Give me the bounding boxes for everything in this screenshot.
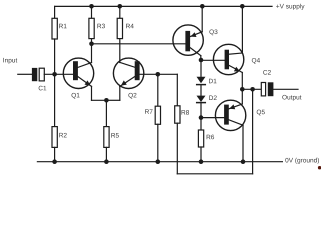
resistor R8 [175,106,180,123]
label R6 [207,135,214,140]
label Q4 [252,58,260,64]
wire R2 bottom [54,147,56,161]
wire R8 top [176,74,178,106]
wire output node horizontal [242,88,261,90]
transistor Q2 [113,58,143,88]
wire feedback riser to output node [252,89,254,174]
node R3 Q1 collector Q3 base [89,42,94,47]
wire R1 bottom to R2 [54,39,56,127]
resistor R3 [89,18,94,38]
label C1 [39,86,47,91]
node C1 R1 Q1 base [52,72,57,77]
node Q2 base R7 R8 [156,72,161,77]
wire emitter junction to R5 [105,100,107,126]
wire Q4 emitter to output node [241,73,243,90]
wire R4 top [119,6,121,18]
wire Q1 emitter down [91,86,93,100]
label Q3 [209,29,217,35]
label D1 [209,79,216,83]
node ground R7 [156,159,161,164]
label C2 [263,70,271,75]
artifact red dot [318,166,321,169]
node D2 Q5 base R6 [199,115,204,120]
wire Q3 collector to node [200,56,202,60]
label R7 [145,109,152,113]
wire R3 top [91,6,93,18]
wire node to R6 [200,118,202,130]
wire 0V bottom rail [37,161,282,163]
wire R5 bottom [105,147,107,161]
label R8 [182,110,189,115]
node top rail Q3 [200,4,205,9]
wire D2 to Q5 base node [200,103,202,118]
transistor Q1 [63,58,93,88]
wire R3 bottom [91,39,93,44]
resistor R6 [198,130,203,147]
diode D2 [197,96,206,103]
label R3 [97,24,104,29]
wire node to Q4 base [201,59,225,61]
wire Q1 collector to node [91,44,93,63]
diode D1 [197,77,206,85]
transistor Q5 [215,100,245,130]
wire feedback bottom horizontal [177,173,252,175]
capacitor C2 [261,82,273,96]
label Q2 [128,93,136,99]
node Q3 collector D1 Q4 base [199,58,204,63]
wire node to Q5 base [201,117,224,119]
wire R7 bottom [157,124,159,161]
label Q5 [257,110,265,116]
node top rail R3 [89,4,94,9]
node output feedback [250,87,255,92]
node top rail R4 [118,4,123,9]
resistor R5 [104,127,109,148]
wire R3 node to Q3 base [92,43,186,45]
wire output stub [273,88,298,90]
label R2 [59,133,66,138]
wire Q2 emitter to junction [106,99,119,101]
resistor R4 [117,18,122,38]
wire Q2 base to R7 node [139,73,158,75]
label 0V (ground) [285,158,319,164]
wire node to D1 [200,60,202,77]
wire Q4 collector to +V [241,6,243,53]
label Input [3,58,17,64]
wire Q5 collector to ground [242,125,244,161]
label D2 [209,95,216,100]
label R4 [126,24,134,28]
wire input stub [18,73,32,75]
wire R6 bottom [200,147,202,162]
wire R8 bottom feedback underpass [176,123,178,174]
node ground R2 [52,159,57,164]
node output Q4 Q5 [240,87,245,92]
resistor R1 [52,18,57,39]
resistor R7 [155,106,160,124]
node ground R6 [199,159,204,164]
wire Q5 emitter to output node [241,89,243,104]
capacitor C1 [32,68,44,81]
wire R7 top [157,74,159,106]
transistor Q4 [213,44,243,74]
wire C1 to Q1 base [44,73,73,75]
wire Q1 emitter to junction [92,99,107,101]
node ground Q5 collector [241,159,246,164]
node Q1 Q2 emitters R5 [104,98,109,103]
label +V supply [276,4,304,10]
label Output [282,95,301,101]
node top rail Q4 [240,4,245,9]
wire +V top rail [55,5,272,7]
transistor Q3 [173,25,203,56]
resistor R2 [52,127,57,148]
wire Q3 emitter to +V [201,6,203,31]
node ground R5 [104,159,109,164]
wire R4 bottom to Q2 collector [119,39,121,63]
label R1 [59,24,66,28]
wire R7 node to R8 [158,73,178,75]
wire Q2 emitter down [119,86,121,100]
wire D1 to D2 [200,85,202,96]
label R5 [111,133,119,138]
label Q1 [72,93,80,99]
wire R1 top [54,6,56,18]
